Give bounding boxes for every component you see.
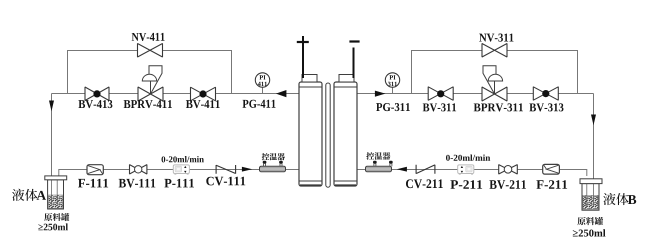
filter F-211 xyxy=(543,164,560,174)
label ≥250ml (right) xyxy=(573,229,606,236)
label NV-411 xyxy=(132,33,165,41)
filter F-111 xyxy=(87,165,103,175)
flow arrow down on right return line xyxy=(591,115,596,126)
ball valve BV-313 xyxy=(533,87,558,100)
ball valve BV-413 xyxy=(85,87,109,101)
label BPRV-411 xyxy=(124,100,172,108)
negative electrode terminal xyxy=(349,42,359,79)
needle valve NV-311 xyxy=(482,44,507,58)
ball valve BV-111 xyxy=(130,165,147,174)
ball valve BV-411 xyxy=(191,87,216,101)
label BV-111 xyxy=(119,179,156,188)
pressure gauge PI-411 xyxy=(255,73,269,94)
pump P-211 xyxy=(458,165,474,175)
label P-211 xyxy=(450,180,482,189)
label PG-411 xyxy=(243,100,276,108)
wire: left return line from main line down to tank A xyxy=(51,94,53,177)
flow arrow right on bottom left feed line xyxy=(242,167,252,172)
label 控温器 (left) xyxy=(262,153,285,160)
back-pressure regulator BPRV-311 xyxy=(482,66,507,101)
label PG-311 xyxy=(376,103,410,111)
wire: right bypass loop xyxy=(412,51,578,94)
flow arrow down on left return line xyxy=(49,101,54,112)
heat exchanger (控温器) left xyxy=(260,161,286,172)
label ≥250ml (left) xyxy=(38,223,68,230)
label 0-20ml/min (right pump rate) xyxy=(446,154,490,160)
label BV-413 xyxy=(78,100,112,108)
label F-211 xyxy=(536,180,567,189)
check valve CV-111 xyxy=(216,165,236,174)
cell membrane xyxy=(326,83,330,187)
back-pressure regulator BPRV-411 xyxy=(138,66,163,101)
label 原料罐 (left) xyxy=(44,213,69,221)
wire: main line left (tank A riser to cell left wall) xyxy=(52,93,300,95)
ball valve BV-311 xyxy=(428,87,453,101)
wire: bottom feed line right (tank B outlet to cell) xyxy=(357,170,587,177)
pump P-111 xyxy=(173,165,189,175)
flow arrow left on bottom right feed line xyxy=(397,167,407,172)
tank A (raw material) xyxy=(45,176,67,209)
label 0-20ml/min (left pump rate) xyxy=(162,156,204,162)
label CV-111 xyxy=(206,177,245,186)
label BV-313 xyxy=(529,103,563,111)
wire: bottom feed line left (tank A outlet to cell) xyxy=(59,170,299,177)
label 液体B xyxy=(603,193,628,205)
label P-111 xyxy=(164,179,194,188)
ball valve BV-211 xyxy=(499,165,518,174)
label 液体A xyxy=(12,189,37,201)
check valve CV-211 xyxy=(416,165,435,174)
flow arrow right on main line (cell outlet, right) xyxy=(375,91,386,97)
tank B (raw material) xyxy=(580,179,602,210)
pressure gauge PI-311 xyxy=(385,73,399,94)
needle valve NV-411 xyxy=(138,44,163,58)
heat exchanger (控温器) right xyxy=(366,161,393,172)
label CV-211 xyxy=(406,179,443,188)
electrolysis cell left chamber xyxy=(299,75,322,187)
wire: main line right (cell right wall to tank B riser) xyxy=(357,93,594,95)
label F-111 xyxy=(78,179,108,188)
label 控温器 (right) xyxy=(366,152,390,160)
label BV-311 xyxy=(423,103,456,111)
label BPRV-311 xyxy=(474,103,523,111)
flow arrow left on main line (cell outlet, left) xyxy=(276,90,287,97)
label NV-311 xyxy=(479,34,513,42)
electrolysis cell right chamber xyxy=(334,75,357,187)
wire: right return line from main line down to tank B xyxy=(593,94,595,180)
label 原料罐 (right) xyxy=(577,217,603,225)
positive electrode terminal xyxy=(297,36,309,78)
label BV-211 xyxy=(489,180,526,189)
label BV-411 xyxy=(186,100,220,108)
wire: left bypass loop xyxy=(68,51,232,94)
